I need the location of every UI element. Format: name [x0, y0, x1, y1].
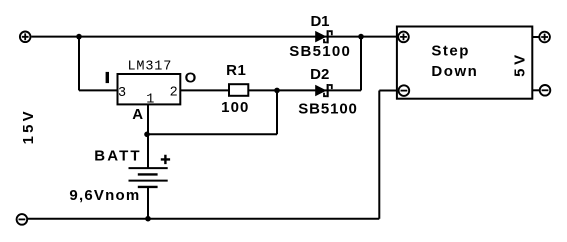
svg-text:BATT: BATT: [94, 148, 139, 165]
wire from vertical to LM317 pin 3: [79, 89, 118, 91]
terminal + step-down input: [398, 32, 409, 43]
pin number 3: [118, 86, 126, 101]
svg-text:1: 1: [146, 93, 154, 108]
svg-text:SB5100: SB5100: [289, 43, 350, 60]
diode D2 schottky: [315, 84, 332, 97]
wire bottom rail from - terminal to step-down return: [28, 218, 380, 220]
terminal - step-down input: [399, 85, 410, 96]
label SB5100 for D2: [298, 101, 357, 118]
wire LM317 adjust pin down to battery top: [147, 104, 149, 168]
terminal + of 15V source: [20, 32, 31, 43]
label 15V source voltage: [20, 111, 37, 144]
wire adjust feedback horizontal: [147, 133, 277, 135]
node junction R1 output / D2 anode / adjust loop: [274, 88, 280, 94]
label BATT: [94, 148, 139, 165]
wire stub step-down output plus: [532, 36, 539, 38]
svg-text:100: 100: [221, 99, 248, 116]
svg-text:R1: R1: [226, 62, 246, 79]
diode D1 schottky: [315, 30, 332, 43]
wire stub step-down output minus: [532, 89, 540, 91]
terminal - of 15V source: [17, 214, 28, 225]
terminal + step-down output 5V: [539, 32, 550, 43]
battery polarity + mark: [161, 155, 170, 164]
battery BATT plates: [129, 168, 168, 187]
terminal - step-down output: [540, 85, 551, 96]
node junction top rail at D1/D2 cathode join: [358, 34, 364, 40]
wire vertical from top rail junction down to LM317 input: [78, 37, 80, 91]
svg-text:5V: 5V: [511, 55, 528, 77]
wire stub to step-down minus input: [379, 90, 398, 92]
label 100 resistor value: [221, 99, 248, 116]
op-amp regulator U1 LM317 box: [118, 74, 181, 104]
label D1: [311, 13, 330, 30]
svg-text:O: O: [185, 70, 197, 87]
node junction top rail at LM317 input branch: [76, 34, 82, 40]
label LM317: [128, 60, 172, 75]
wire vertical from R1 output junction down to adjust loop: [276, 90, 278, 134]
pin number 2: [170, 85, 178, 100]
pin number 1: [146, 93, 154, 108]
svg-text:SB5100: SB5100: [298, 101, 357, 118]
svg-text:D1: D1: [311, 13, 330, 30]
svg-text:9,6Vnom: 9,6Vnom: [69, 187, 139, 204]
node junction battery minus on bottom rail: [145, 216, 151, 222]
wire vertical return up to step-down minus input: [378, 91, 380, 219]
svg-text:LM317: LM317: [128, 60, 172, 75]
wire battery bottom down to bottom rail: [147, 187, 149, 219]
converter module Step Down box: [397, 27, 532, 99]
node junction adjust pin / feedback loop: [144, 132, 150, 138]
svg-text:A: A: [132, 106, 143, 123]
label R1: [226, 62, 246, 79]
label 9,6Vnom battery voltage: [69, 187, 139, 204]
label SB5100 for D1: [289, 43, 350, 60]
svg-text:Down: Down: [431, 63, 476, 80]
svg-text:2: 2: [170, 85, 178, 100]
wire middle rail LM317 output through R1 to D2 corner: [180, 89, 361, 91]
label A adjust pin: [132, 106, 143, 123]
label O output pin: [185, 70, 197, 87]
label I input pin: [106, 72, 109, 83]
wire top rail from + terminal to step-down input: [31, 36, 397, 38]
label 5V output voltage: [511, 55, 528, 77]
resistor R1 body: [229, 84, 248, 96]
svg-text:Step: Step: [431, 43, 468, 60]
wire vertical D2 cathode up to top rail junction: [360, 37, 362, 91]
svg-text:15V: 15V: [20, 111, 37, 144]
svg-text:3: 3: [118, 86, 126, 101]
svg-text:D2: D2: [310, 66, 329, 83]
label D2: [310, 66, 329, 83]
label Down: [431, 63, 476, 80]
label Step: [431, 43, 468, 60]
